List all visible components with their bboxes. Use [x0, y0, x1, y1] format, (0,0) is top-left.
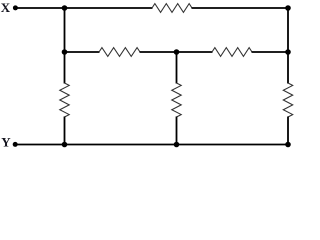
junction dot row2 right: [285, 49, 291, 55]
resistor R3 row2 right: [212, 48, 252, 57]
wire left vertical upper segment: [64, 8, 66, 84]
wire right vertical upper segment: [287, 8, 289, 84]
wire middle vertical lower segment: [176, 117, 178, 145]
resistor R5 middle vertical: [172, 83, 181, 117]
junction dot row2 left: [62, 49, 68, 55]
junction dot top of left branch: [62, 5, 68, 11]
wire right vertical lower segment: [287, 117, 289, 145]
svg-text:Y: Y: [1, 134, 11, 149]
wire top rail left segment: [17, 7, 153, 9]
junction dot bottom left: [62, 142, 68, 148]
node Y terminal dot: [13, 142, 18, 147]
resistor R1 top: [152, 4, 192, 13]
junction dot bottom right corner: [285, 142, 291, 148]
resistor R6 right vertical: [283, 83, 292, 117]
svg-text:X: X: [1, 0, 11, 15]
wire row2 segment b: [140, 51, 213, 53]
wire middle vertical upper segment: [176, 52, 178, 84]
resistor R2 row2 left: [99, 48, 140, 57]
wire bottom rail: [17, 144, 289, 146]
wire left vertical lower segment: [64, 117, 66, 145]
junction dot bottom middle: [174, 142, 180, 148]
resistor R4 left vertical: [60, 83, 69, 117]
wire top rail right segment: [192, 7, 289, 9]
wire row2 segment c: [252, 51, 289, 53]
junction dot row2 middle: [174, 49, 180, 55]
node X terminal dot: [13, 5, 18, 10]
junction dot top right corner: [285, 5, 291, 11]
wire row2 segment a: [65, 51, 100, 53]
